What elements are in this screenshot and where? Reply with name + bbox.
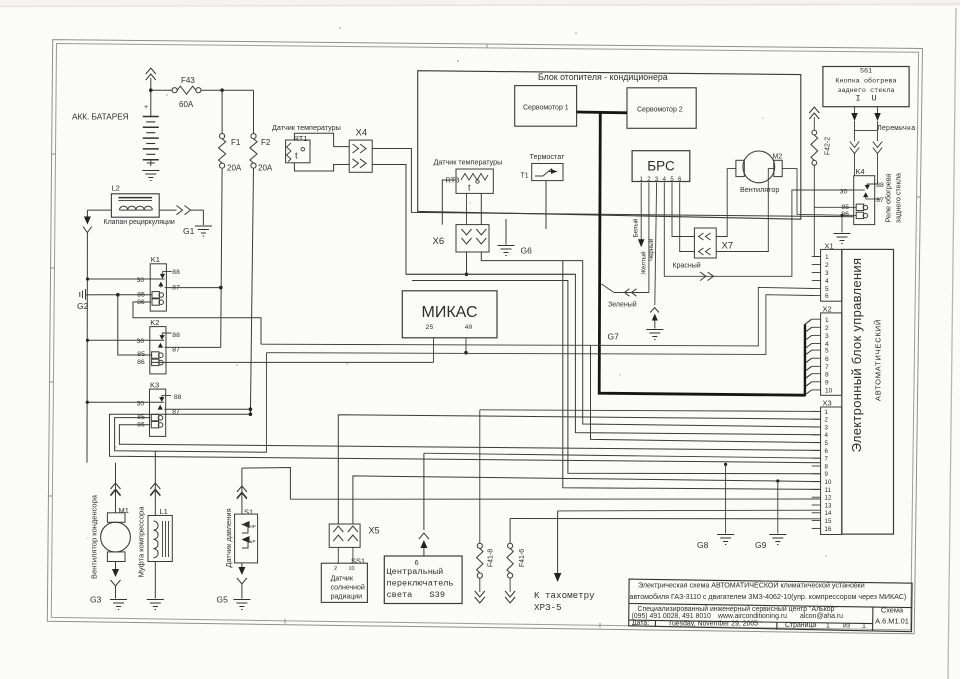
svg-text:Сервомотор 2: Сервомотор 2 [637, 107, 683, 114]
wire K3 pin85 route to L1 [115, 418, 267, 453]
svg-text:X7: X7 [722, 241, 734, 252]
ground under L1 [147, 600, 164, 610]
svg-text:X3: X3 [823, 399, 832, 408]
wire BRS pin1 white (Белый) [633, 183, 645, 248]
wire BRS pin4 red (Красный) to K4 30 [664, 183, 853, 281]
svg-text:+: + [144, 104, 148, 111]
wire long to X1.5 [261, 287, 814, 346]
svg-text:88: 88 [172, 332, 180, 339]
svg-text:2: 2 [825, 417, 829, 424]
svg-text:30: 30 [137, 277, 145, 284]
wire X6.1 junction route [406, 252, 575, 276]
ground G6 [498, 219, 533, 256]
svg-text:5: 5 [825, 348, 829, 355]
svg-text:G7: G7 [608, 332, 620, 342]
svg-text:1: 1 [825, 317, 829, 324]
svg-text:F41-8: F41-8 [488, 549, 495, 567]
svg-text:Специализированный инженерный: Специализированный инженерный сервисный … [638, 605, 838, 613]
wire K2 pin87 to F1 [165, 346, 221, 348]
svg-text:SS1: SS1 [351, 557, 365, 566]
svg-text:4: 4 [825, 278, 829, 285]
wire BRS pin3 black (Черный) to G7 [648, 183, 657, 306]
fuse F2 20A [250, 90, 273, 172]
temperature sensor RT3 (Датчик температуры) [434, 158, 503, 194]
wire K4 85 [814, 206, 856, 208]
svg-text:11: 11 [825, 487, 832, 494]
svg-text:Вентилятор конденсора: Вентилятор конденсора [90, 494, 99, 579]
svg-text:Дата:: Дата: [632, 620, 649, 627]
ground G5 [217, 595, 251, 610]
wire K2 pin30 [88, 339, 164, 341]
svg-text:АВТОМАТИЧЕСКИЙ: АВТОМАТИЧЕСКИЙ [874, 319, 883, 401]
svg-text:S1: S1 [244, 508, 253, 517]
svg-text:9: 9 [825, 471, 829, 478]
ground G3 [90, 595, 127, 610]
svg-text:60А: 60А [179, 100, 194, 109]
wire MIKAS pin25 [433, 338, 435, 363]
fuse F1 20A [219, 90, 242, 172]
svg-text:40: 40 [465, 324, 473, 331]
svg-text:L2: L2 [112, 184, 120, 193]
svg-text:М1: М1 [119, 506, 129, 515]
svg-text:5: 5 [825, 440, 829, 447]
relay K2 pin labels [137, 332, 180, 366]
wire S39 pin6 to X3.6 [419, 453, 821, 556]
svg-text:Датчик температуры: Датчик температуры [434, 158, 503, 167]
svg-text:2: 2 [825, 325, 829, 332]
svg-text:3: 3 [825, 424, 829, 431]
connector X2 [812, 305, 842, 396]
svg-text:Вентилятор: Вентилятор [740, 185, 779, 194]
tachometer arrow (К тахометру ХРЗ-5) [534, 511, 595, 613]
svg-text:1: 1 [862, 623, 866, 630]
svg-text:10: 10 [825, 388, 833, 395]
svg-text:G3: G3 [90, 595, 102, 605]
svg-text:МИКАС: МИКАС [421, 304, 477, 321]
svg-text:Датчик давления: Датчик давления [224, 508, 233, 567]
svg-text:Центральный: Центральный [387, 567, 444, 577]
wire long to X1.6 [267, 295, 814, 355]
temperature sensor RT1 (Датчик температуры) [272, 123, 341, 163]
svg-text:10: 10 [349, 566, 355, 572]
svg-text:88: 88 [174, 394, 182, 401]
svg-text:16: 16 [825, 526, 832, 533]
wire X7 row1 to M2 left [716, 169, 736, 237]
MIKAS ECU box (МИКАС) [402, 291, 497, 338]
svg-text:85: 85 [137, 291, 145, 298]
wire BRS pin2 yellow (Желтый) to green link [640, 183, 649, 293]
svg-text:5: 5 [825, 286, 829, 293]
svg-text:К тахометру: К тахометру [534, 590, 595, 601]
svg-text:6: 6 [825, 448, 829, 455]
wire bundle vertical x567 to G9 line [412, 281, 821, 474]
solar sensor SS1 (Датчик солнечной радиации) [321, 557, 367, 603]
svg-text:8: 8 [825, 371, 829, 378]
wire X7 row2 to M2 right [716, 169, 774, 252]
wire K2 pin86 to MIKAS 25 [152, 361, 434, 363]
battery GB (АКК. БАТАРЕЯ) [72, 104, 159, 181]
wire F2 to K3 87 [250, 168, 253, 414]
wire green link (Зеленый) [602, 284, 649, 309]
svg-text:заднего стекла: заднего стекла [837, 87, 894, 95]
relay K4 (Реле обогрева заднего стекла) [854, 167, 878, 224]
svg-text:1: 1 [826, 622, 830, 629]
svg-text:Т1: Т1 [521, 173, 529, 180]
svg-text:Желтый: Желтый [640, 251, 647, 275]
svg-text:12: 12 [825, 495, 832, 502]
svg-text:2: 2 [334, 566, 337, 572]
svg-text:G6: G6 [521, 246, 533, 256]
thick bus servo tee [577, 111, 627, 115]
svg-text:БРС: БРС [647, 159, 675, 174]
fuse F43 60A [151, 76, 254, 109]
svg-text:Датчик: Датчик [331, 576, 354, 583]
heater-AC unit box (Блок отопителя - кондиционера) [418, 71, 801, 220]
connector block БРС [632, 151, 690, 183]
svg-text:Страница: Страница [785, 622, 816, 629]
svg-text:Электронный блок управления: Электронный блок управления [849, 258, 864, 453]
wire F1 to K1/K2 87 [221, 168, 222, 347]
svg-text:G5: G5 [217, 595, 229, 605]
ECU box (Электронный блок управления) [842, 249, 894, 534]
svg-text:Кнопка обогрева: Кнопка обогрева [835, 76, 896, 85]
svg-text:9: 9 [825, 379, 829, 386]
relay K1 [150, 255, 172, 311]
svg-text:86: 86 [137, 359, 145, 366]
svg-text:F42-2: F42-2 [825, 137, 832, 155]
svg-text:Tuesday, November 29, 2005: Tuesday, November 29, 2005 [668, 620, 758, 627]
relay K3 pin labels [137, 394, 182, 428]
svg-text:4: 4 [825, 432, 829, 439]
fuse F41-8 [475, 410, 495, 603]
relay K1 pin labels [137, 269, 180, 306]
wire bundle vertical x562 [563, 261, 821, 490]
relay K2 [150, 318, 172, 374]
svg-text:K2: K2 [150, 318, 159, 327]
scan page edge artifact [0, 0, 960, 6]
svg-text:13: 13 [825, 502, 832, 509]
wire K1 pin86 route [133, 302, 261, 344]
wire K1 pin30 [88, 278, 165, 280]
svg-text:Зеленый: Зеленый [608, 301, 637, 309]
wire X4.2 to X6 route [372, 165, 820, 435]
svg-text:Электрическая схема АВТОМАТИЧЕ: Электрическая схема АВТОМАТИЧЕСКОЙ клима… [638, 581, 865, 590]
svg-text:30: 30 [137, 338, 145, 345]
svg-text:Схема: Схема [881, 606, 904, 615]
wire L2 to M1 branch [83, 210, 112, 463]
svg-text:автомобиля ГАЗ-3110 с двигател: автомобиля ГАЗ-3110 с двигателем ЗМЗ-406… [630, 593, 907, 601]
svg-text:X5: X5 [369, 526, 380, 536]
svg-text:солнечной: солнечной [331, 584, 365, 592]
wire BRS pin6 to X7 [680, 183, 695, 252]
svg-text:10: 10 [825, 479, 832, 486]
svg-text:переключатель: переключатель [387, 579, 454, 589]
wire tach feed to X3.13 [558, 509, 821, 512]
svg-text:ХРЗ-5: ХРЗ-5 [534, 602, 562, 613]
svg-text:6: 6 [825, 356, 829, 363]
svg-text:25: 25 [426, 324, 434, 331]
svg-text:G2: G2 [77, 301, 89, 311]
svg-text:U: U [871, 94, 876, 104]
wire G2 to K2 85 [118, 295, 152, 355]
svg-text:7: 7 [825, 364, 829, 371]
fuse F41-6 [505, 519, 526, 604]
relay K4 pin labels [840, 182, 884, 218]
wire K3 pin30 [88, 401, 164, 403]
svg-text:Красный: Красный [673, 262, 701, 270]
thermostat T1 (Термостат) [521, 152, 566, 181]
svg-text:Сервомотор 1: Сервомотор 1 [523, 105, 569, 112]
wire node junction y414 [110, 409, 821, 463]
svg-text:L1: L1 [160, 507, 168, 516]
svg-text:RT1: RT1 [294, 134, 308, 143]
svg-text:S39: S39 [430, 590, 445, 600]
svg-text:3: 3 [825, 270, 829, 277]
svg-text:Клапан рециркуляции: Клапан рециркуляции [104, 219, 175, 226]
svg-text:7: 7 [825, 456, 829, 463]
svg-text:Белый: Белый [633, 218, 640, 237]
svg-text:8: 8 [825, 463, 829, 470]
svg-text:14: 14 [825, 510, 832, 517]
svg-text:заднего стекла: заднего стекла [894, 173, 903, 223]
thick harness fan to X2 [805, 319, 812, 395]
svg-text:Блок отопителя - кондиционера: Блок отопителя - кондиционера [538, 72, 668, 82]
svg-text:X6: X6 [433, 236, 445, 247]
svg-text:30: 30 [840, 189, 848, 196]
svg-text:А.6.М1.01: А.6.М1.01 [875, 617, 909, 626]
fuse F42-2 [809, 107, 831, 165]
wire T1 drop [545, 181, 547, 229]
wire K1 pin87 to F1 [165, 286, 223, 290]
wire X5 right to X3.9 [353, 476, 821, 524]
wire K3 pin86 route long [119, 425, 820, 451]
thick bus vertical and horizontal to X2 [599, 112, 805, 396]
wire K4 88 riser [875, 183, 878, 185]
wire M2 right to K4 86 [782, 169, 856, 216]
svg-text:радиации: радиации [331, 594, 363, 601]
svg-text:G1: G1 [183, 226, 195, 236]
ground G7 [608, 308, 664, 342]
svg-text:G8: G8 [697, 540, 709, 550]
svg-text:Муфта компрессора: Муфта компрессора [137, 506, 146, 578]
wire K4 87 stub [875, 198, 881, 200]
title block [629, 579, 912, 632]
wire long S1 line to X3.12 [290, 498, 820, 500]
title block text [630, 581, 909, 630]
svg-text:15: 15 [825, 518, 832, 525]
svg-text:alcon@aha.ru: alcon@aha.ru [800, 613, 843, 620]
svg-text:I: I [855, 94, 860, 104]
ground G9 [755, 479, 786, 550]
motor M1 (Вентилятор конденсора) [90, 463, 131, 599]
svg-text:88: 88 [172, 269, 180, 276]
connector X3 [812, 399, 842, 535]
svg-text:K1: K1 [151, 255, 160, 264]
wire MIKAS pin40 [464, 338, 468, 355]
svg-text:1: 1 [825, 254, 829, 261]
wire riser x590 to X3.4 [591, 345, 821, 442]
ground G2 [77, 289, 152, 311]
connector X1 [812, 241, 842, 301]
pressure sensor S1 (Датчик давления) [224, 468, 258, 598]
svg-text:30: 30 [137, 400, 145, 407]
svg-text:20А: 20А [227, 164, 242, 173]
paper speck artifacts [87, 27, 827, 557]
wire X6.2 route to X3.2 [481, 252, 820, 427]
svg-text:www.airconditioning.ru: www.airconditioning.ru [717, 613, 787, 620]
wire F41-6 feed to X3.14 [510, 518, 820, 520]
jumper wires (Перемычка) [850, 107, 916, 184]
ground G8 [697, 463, 734, 550]
wire BRS pin5 to X7 [672, 183, 694, 237]
inductor L2 (Клапан рециркуляции) [104, 184, 175, 227]
svg-text:t: t [295, 151, 298, 162]
svg-text:S61: S61 [860, 68, 872, 76]
ground under K4 86 [834, 214, 851, 244]
wire X4.1 long to K4 area [372, 149, 854, 217]
svg-text:K3: K3 [150, 380, 159, 389]
wire F42-2 to X1.1 [814, 165, 820, 256]
svg-text:Термостат: Термостат [530, 152, 566, 161]
wire riser x266 to y452 [266, 353, 268, 453]
border frame [47, 40, 922, 634]
svg-text:2: 2 [825, 262, 829, 269]
wire battery feed [146, 68, 156, 117]
svg-text:ЬР: ЬР [250, 539, 256, 544]
svg-text:Черный: Черный [648, 238, 655, 261]
svg-text:F41-6: F41-6 [519, 549, 526, 567]
wire K3 pin87 to F2 [164, 407, 252, 411]
svg-text:20А: 20А [258, 164, 273, 173]
clutch coil L1 (Муфта компрессора) [137, 451, 173, 599]
wire X5 to SS1 pins [338, 547, 353, 563]
svg-text:G9: G9 [755, 540, 767, 550]
connector X7 [694, 228, 733, 258]
servo motor 1 (Сервомотор 1) [515, 86, 577, 127]
svg-text:K4: K4 [856, 167, 865, 176]
servo motor 2 (Сервомотор 2) [627, 88, 696, 129]
svg-text:АКК. БАТАРЕЯ: АКК. БАТАРЕЯ [72, 113, 129, 122]
svg-text:6: 6 [825, 293, 829, 300]
svg-text:F43: F43 [181, 76, 195, 85]
wire X5 left to X3.1 [338, 415, 820, 524]
connector X6 [433, 225, 490, 252]
wire S1 feed [242, 468, 291, 500]
wire RT1 to X4 bottom [294, 163, 349, 171]
wire RT1 to X4 top [294, 133, 349, 146]
wire F41-8 feed to X3.1 [480, 410, 821, 412]
vertical label rear window heat relay [884, 173, 903, 223]
svg-text:Реле обогрева: Реле обогрева [884, 174, 893, 223]
relay K3 [150, 380, 172, 436]
svg-text:Датчик температуры: Датчик температуры [272, 123, 341, 132]
svg-text:М2: М2 [773, 154, 783, 161]
fan motor M2 (Вентилятор) [736, 151, 782, 194]
svg-text:3: 3 [825, 333, 829, 340]
svg-text:НР: НР [250, 524, 256, 529]
svg-text:Перемычка: Перемычка [878, 125, 916, 133]
svg-text:из: из [843, 623, 850, 630]
svg-text:света: света [387, 590, 413, 600]
svg-text:X4: X4 [356, 128, 368, 139]
svg-text:1: 1 [825, 409, 829, 416]
ground G1 [159, 206, 212, 237]
rear window heat button S61 (Кнопка обогрева заднего стекла) [823, 67, 909, 107]
light switch S39 (Центральный переключатель света) [384, 556, 462, 604]
connector X5 [329, 524, 379, 547]
connector X4 [349, 128, 372, 173]
svg-text:F1: F1 [231, 138, 241, 147]
svg-text:F2: F2 [261, 138, 271, 147]
wire RT3 to X6 [442, 180, 481, 225]
svg-text:X2: X2 [823, 305, 832, 314]
